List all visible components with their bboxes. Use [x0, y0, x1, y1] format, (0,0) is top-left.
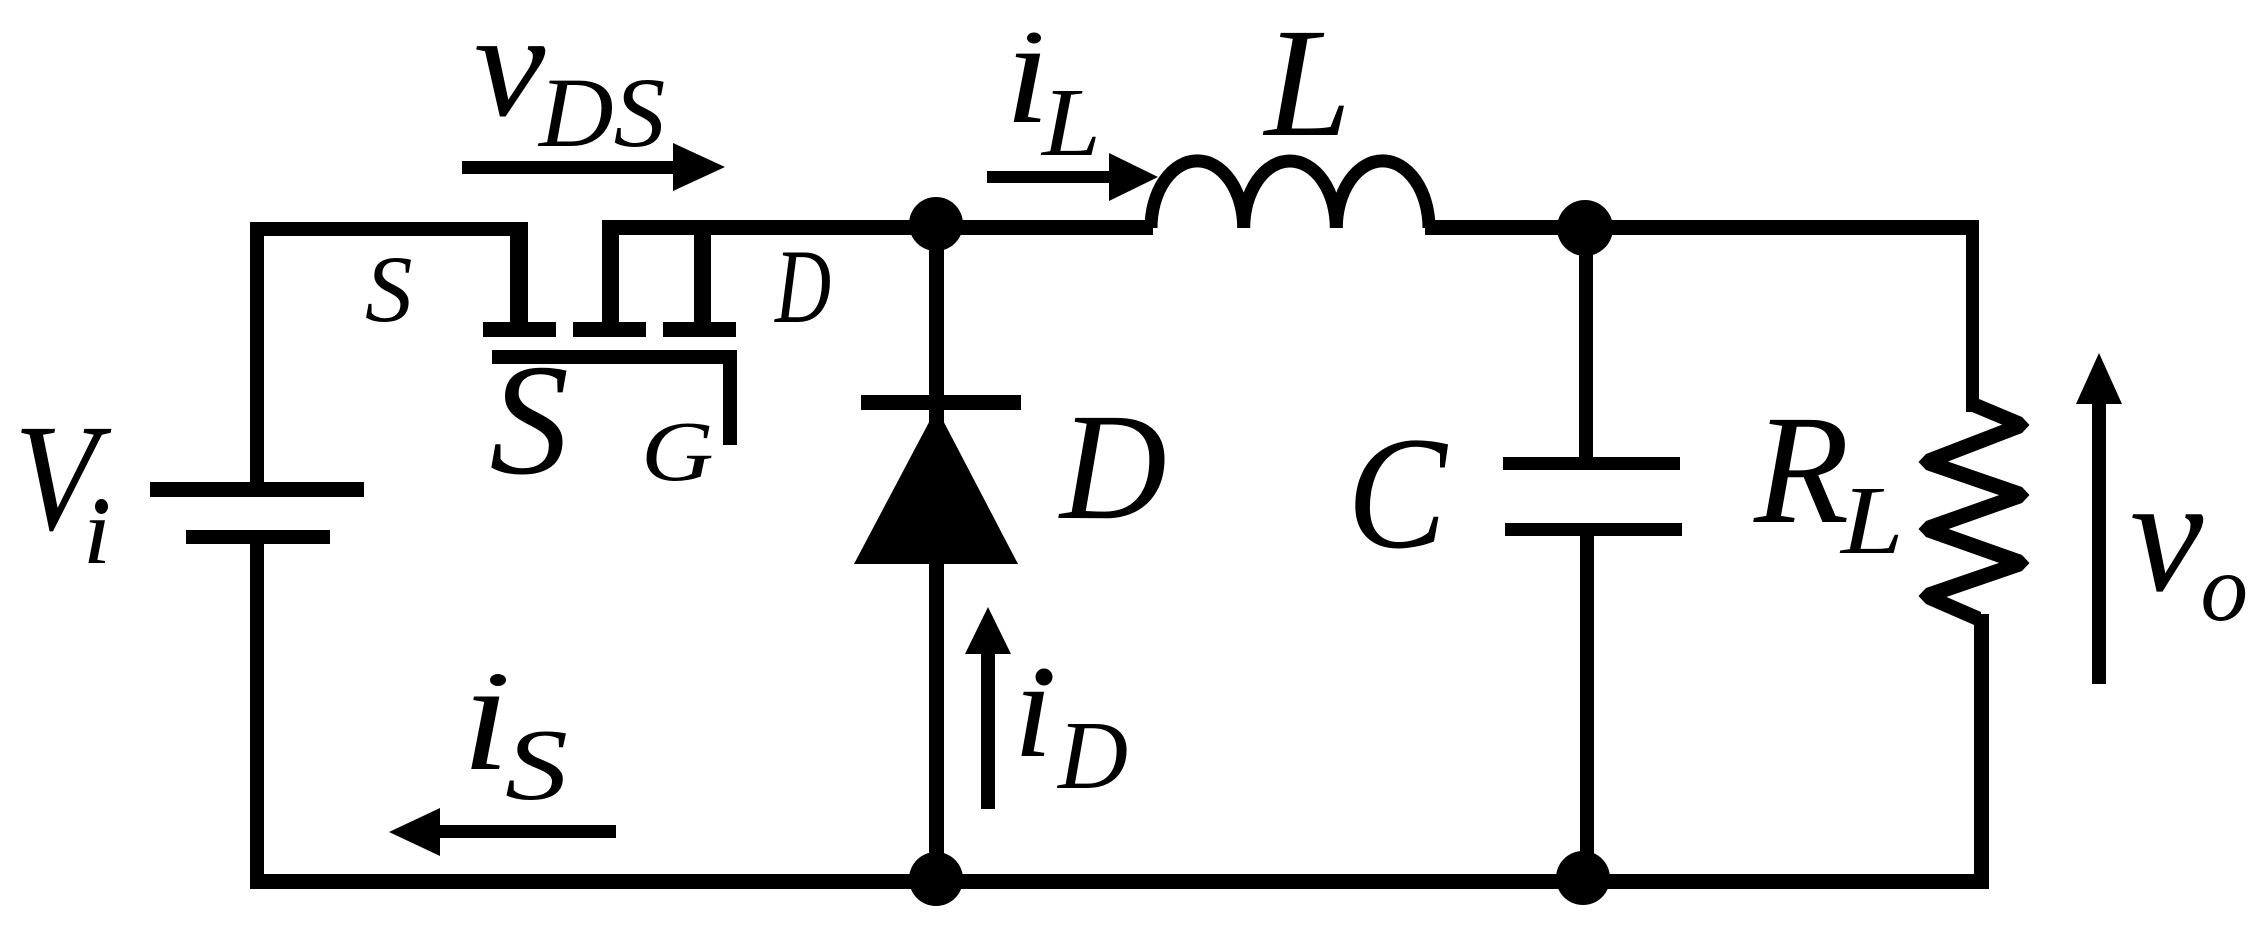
wire left vertical upper (top wire to battery top plate) [250, 222, 264, 482]
arrow i_S [436, 825, 616, 838]
svg-text:DS: DS [537, 56, 665, 167]
svg-text:S: S [490, 332, 570, 508]
svg-text:o: o [2201, 535, 2249, 641]
svg-text:C: C [1347, 404, 1449, 582]
svg-text:ı: ı [83, 481, 111, 584]
transistor S: drain leg inner [602, 220, 619, 322]
transistor S: drain leg outer [694, 220, 711, 322]
wire capacitor branch lower [1580, 534, 1594, 882]
battery V_i bottom plate [186, 530, 330, 544]
node D (capacitor/bottom wire junction) [1556, 851, 1610, 905]
svg-text:ı: ı [462, 628, 510, 803]
wire right vertical upper (corner to resistor top) [1966, 220, 1979, 412]
arrow i_D [981, 652, 995, 809]
diode D triangle [854, 408, 1018, 564]
svg-text:G: G [641, 405, 714, 500]
arrow v_DS [462, 161, 677, 174]
node A (switch/diode/inductor junction) [909, 197, 963, 251]
svg-text:R: R [1753, 383, 1849, 556]
svg-text:L: L [1839, 466, 1904, 575]
wire top middle (MOSFET drain to inductor) [602, 220, 1153, 235]
capacitor C bottom plate [1505, 523, 1682, 536]
resistor R_L zigzag [1972, 396, 2022, 433]
svg-text:D: D [773, 228, 831, 345]
diode D cathode bar [861, 395, 1021, 410]
battery V_i top plate [150, 482, 364, 497]
transistor S: channel bar 1 [483, 322, 556, 337]
transistor S: channel bar 2 [573, 322, 646, 337]
transistor S: source leg [510, 222, 528, 322]
capacitor C top plate [1503, 457, 1680, 470]
wire bottom horizontal [250, 874, 1989, 889]
svg-text:v: v [474, 0, 545, 148]
transistor S: gate bar [492, 350, 737, 364]
transistor S: channel bar 3 [663, 322, 736, 337]
svg-text:v: v [2130, 443, 2204, 626]
inductor L [1151, 161, 1429, 228]
transistor S: gate lead [723, 350, 737, 445]
wire diode branch vertical [929, 228, 944, 882]
wire capacitor branch upper [1579, 228, 1593, 458]
svg-text:ı: ı [1014, 632, 1053, 787]
node C (diode/bottom wire junction) [909, 852, 963, 906]
node B (inductor/capacitor/load junction) [1557, 200, 1613, 256]
svg-text:S: S [505, 708, 568, 821]
wire right vertical lower (resistor bottom to bottom wire) [1974, 614, 1989, 889]
arrow i_L [987, 171, 1112, 183]
arrow v_o [2092, 399, 2106, 684]
svg-text:L: L [1040, 69, 1101, 178]
wire top right (inductor to top-right corner) [1425, 220, 1979, 235]
wire top-left horizontal (battery + to MOSFET source) [250, 222, 528, 236]
svg-text:L: L [1263, 0, 1352, 169]
svg-text:S: S [365, 236, 413, 342]
svg-text:D: D [1058, 382, 1167, 552]
wire left vertical lower (battery bottom plate to bottom wire) [250, 535, 264, 889]
svg-text:D: D [1056, 702, 1128, 809]
